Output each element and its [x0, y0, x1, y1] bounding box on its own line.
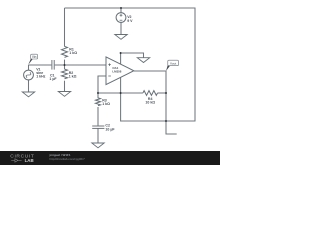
svg-text:1 kΩ: 1 kΩ — [69, 75, 77, 79]
svg-text:LAB: LAB — [25, 158, 34, 163]
svg-text:9 V: 9 V — [127, 19, 133, 23]
svg-text:1 µF: 1 µF — [49, 77, 57, 81]
svg-text:10 kΩ: 10 kΩ — [145, 101, 155, 105]
svg-text:1 kHz: 1 kHz — [36, 75, 45, 79]
svg-text:LM358: LM358 — [112, 70, 121, 74]
svg-text:10 µF: 10 µF — [105, 127, 115, 131]
svg-text:http:∕∕circuitlab.com∕cpg06r7: http:∕∕circuitlab.com∕cpg06r7 — [50, 157, 86, 161]
svg-text:Vout: Vout — [170, 61, 176, 65]
svg-text:1 kΩ: 1 kΩ — [69, 51, 77, 55]
svg-text:Vin: Vin — [32, 55, 37, 59]
svg-text:1 kΩ: 1 kΩ — [102, 102, 110, 106]
